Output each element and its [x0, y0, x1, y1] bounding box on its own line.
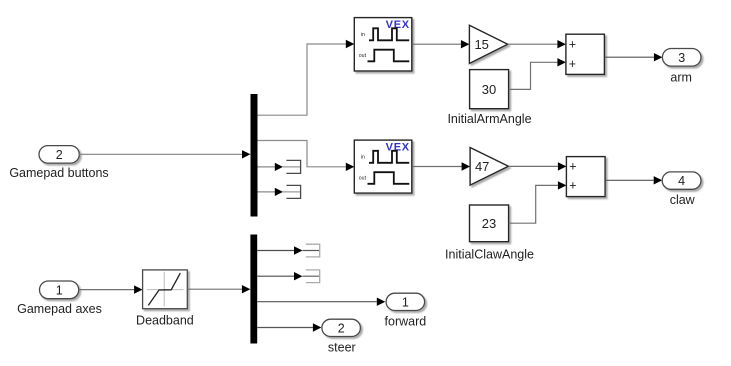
svg-text:VEX: VEX [386, 19, 410, 31]
outport 2 "steer" [322, 319, 361, 336]
svg-text:+: + [569, 160, 576, 174]
inport 2 "Gamepad buttons" [39, 146, 79, 164]
constant 23 InitialClawAngle [470, 205, 509, 242]
wire inport1 to Deadband [79, 285, 143, 293]
wire gain G2 to sum S2 [508, 162, 566, 170]
demux D1 (bus selector bar) [251, 94, 258, 217]
svg-text:out: out [359, 176, 367, 182]
svg-text:InitialArmAngle: InitialArmAngle [447, 112, 531, 126]
svg-text:2: 2 [338, 321, 345, 335]
svg-text:out: out [359, 53, 367, 59]
svg-text:47: 47 [475, 159, 489, 174]
block U2 VEX (claw motor) [354, 140, 412, 193]
svg-text:23: 23 [482, 216, 496, 231]
gain G2 value 47 [470, 148, 508, 186]
wire sum S2 to outport 4 [605, 176, 662, 184]
outport 4 "claw" [662, 172, 701, 189]
svg-text:30: 30 [482, 82, 496, 97]
svg-text:1: 1 [56, 284, 63, 298]
gain G1 value 15 [469, 25, 507, 63]
block Deadband [143, 270, 188, 309]
sum S2 (claw) [566, 157, 605, 197]
wire Deadband to demux D2 [187, 285, 250, 293]
wire constant 23 to sum S2 [509, 181, 567, 223]
inport 1 "Gamepad axes" [40, 281, 79, 299]
svg-text:1: 1 [402, 295, 409, 309]
svg-text:in: in [361, 155, 365, 161]
svg-text:+: + [569, 179, 576, 193]
wire sum S1 to outport 3 [605, 53, 663, 61]
svg-text:VEX: VEX [386, 141, 410, 153]
wire demux2 out2 to terminator T4 [257, 272, 320, 280]
terminator T3 [306, 244, 320, 257]
wire VEX2 to gain G2 [412, 162, 470, 170]
svg-text:+: + [569, 37, 576, 51]
svg-text:steer: steer [328, 341, 356, 355]
wire gain G1 to sum S1 [508, 40, 566, 48]
wire demux2 out3 to outport 1 [257, 298, 385, 306]
wire demux1 out1 to VEX1 [258, 40, 355, 115]
terminator T4 [306, 270, 320, 283]
outport 3 "arm" [662, 49, 701, 67]
svg-text:InitialClawAngle: InitialClawAngle [445, 247, 534, 261]
wire inport2 to demux1 [79, 150, 250, 158]
terminator T2 [286, 185, 300, 198]
wire VEX1 to gain G1 [412, 40, 469, 48]
sum S1 (arm) [566, 34, 605, 74]
block U1 VEX (arm motor) [354, 18, 412, 71]
svg-text:Deadband: Deadband [136, 314, 194, 328]
demux D2 (bus selector bar) [250, 235, 257, 344]
wire constant 30 to sum S1 [509, 58, 566, 89]
outport 1 "forward" [386, 293, 425, 310]
svg-text:3: 3 [678, 51, 685, 65]
wire demux2 out1 to terminator T3 [257, 246, 320, 254]
terminator T1 [286, 160, 300, 173]
svg-text:+: + [569, 57, 576, 71]
svg-text:in: in [361, 32, 365, 38]
svg-text:Gamepad axes: Gamepad axes [17, 302, 102, 316]
svg-text:forward: forward [385, 314, 427, 328]
wire demux1 out3 to terminator T1 [258, 163, 301, 171]
svg-text:15: 15 [474, 37, 488, 52]
constant 30 InitialArmAngle [470, 70, 509, 109]
svg-text:4: 4 [678, 174, 685, 188]
svg-text:Gamepad buttons: Gamepad buttons [9, 166, 108, 180]
svg-text:claw: claw [670, 193, 696, 207]
wire demux2 out4 to outport 2 [257, 323, 321, 331]
svg-text:arm: arm [670, 70, 692, 84]
svg-text:2: 2 [56, 148, 63, 162]
wire demux1 out2 to VEX2 [258, 141, 355, 172]
wire demux1 out4 to terminator T2 [258, 188, 301, 196]
